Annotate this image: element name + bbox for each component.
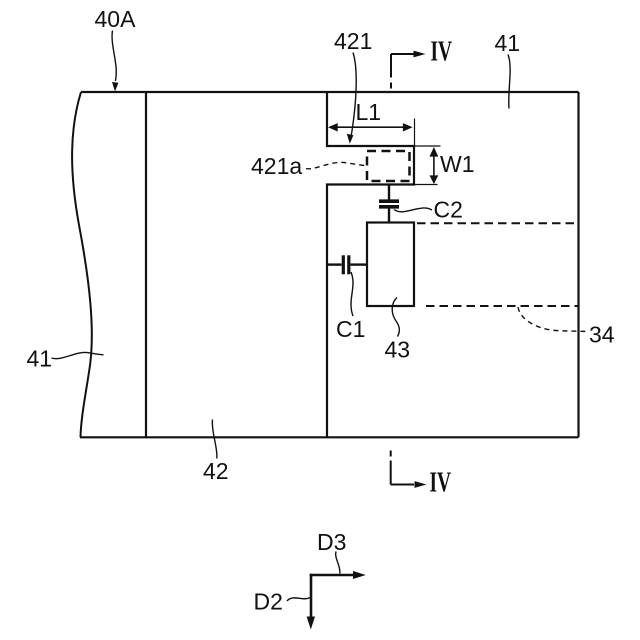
hidden line 34 lower dashed — [426, 305, 579, 307]
divider line between region 41 strip and region 42 — [145, 92, 147, 437]
bottom edge of plate — [80, 436, 579, 438]
L1 extension line — [414, 119, 416, 147]
svg-text:C2: C2 — [434, 196, 463, 222]
leader 42 — [212, 420, 217, 459]
dimension W1 arrow — [433, 150, 435, 181]
slit and notch 421 outline — [327, 92, 414, 437]
svg-text:C1: C1 — [336, 316, 365, 342]
hidden line 34 upper dashed — [417, 222, 579, 224]
svg-text:W1: W1 — [440, 151, 475, 177]
W1 extension line top — [414, 145, 441, 147]
svg-text:IV: IV — [431, 36, 453, 68]
svg-text:34: 34 — [589, 322, 615, 348]
axis D2 arrow — [310, 574, 313, 619]
svg-text:421a: 421a — [251, 153, 302, 179]
svg-text:41: 41 — [495, 30, 521, 56]
svg-text:D2: D2 — [254, 589, 283, 615]
svg-text:42: 42 — [203, 458, 229, 484]
leader C1 — [351, 272, 353, 316]
svg-text:41: 41 — [27, 346, 53, 372]
leader 41 left — [52, 352, 104, 358]
svg-text:L1: L1 — [356, 99, 382, 125]
capacitor C2 — [388, 186, 390, 200]
W1 extension line bottom — [414, 184, 438, 186]
leader 34 dashed — [518, 307, 589, 332]
leader D3 — [336, 552, 340, 574]
leader 421 with arrow — [351, 53, 357, 140]
svg-text:43: 43 — [385, 337, 411, 363]
leader 40A with arrow — [112, 31, 116, 82]
dimension L1 arrow — [330, 126, 411, 128]
leader 41 top — [508, 55, 510, 109]
leader D2 — [287, 598, 310, 602]
leader 421a dashed — [306, 162, 366, 168]
svg-text:421: 421 — [334, 28, 372, 54]
feed element 421a dashed rectangle — [367, 151, 410, 181]
axis D3 arrow — [310, 574, 357, 577]
right edge of plate — [577, 92, 579, 437]
svg-text:D3: D3 — [317, 529, 346, 555]
section marker IV top — [391, 53, 414, 55]
svg-text:IV: IV — [430, 467, 452, 499]
leader C2 — [394, 208, 432, 212]
wavy left break edge of plate 40A — [72, 92, 92, 437]
capacitor C1 — [328, 263, 342, 265]
top edge of plate — [81, 91, 579, 93]
section marker IV bottom — [390, 451, 392, 457]
svg-text:40A: 40A — [95, 6, 137, 32]
leader 43 — [392, 298, 399, 337]
feed circuit block 43 — [367, 223, 414, 307]
